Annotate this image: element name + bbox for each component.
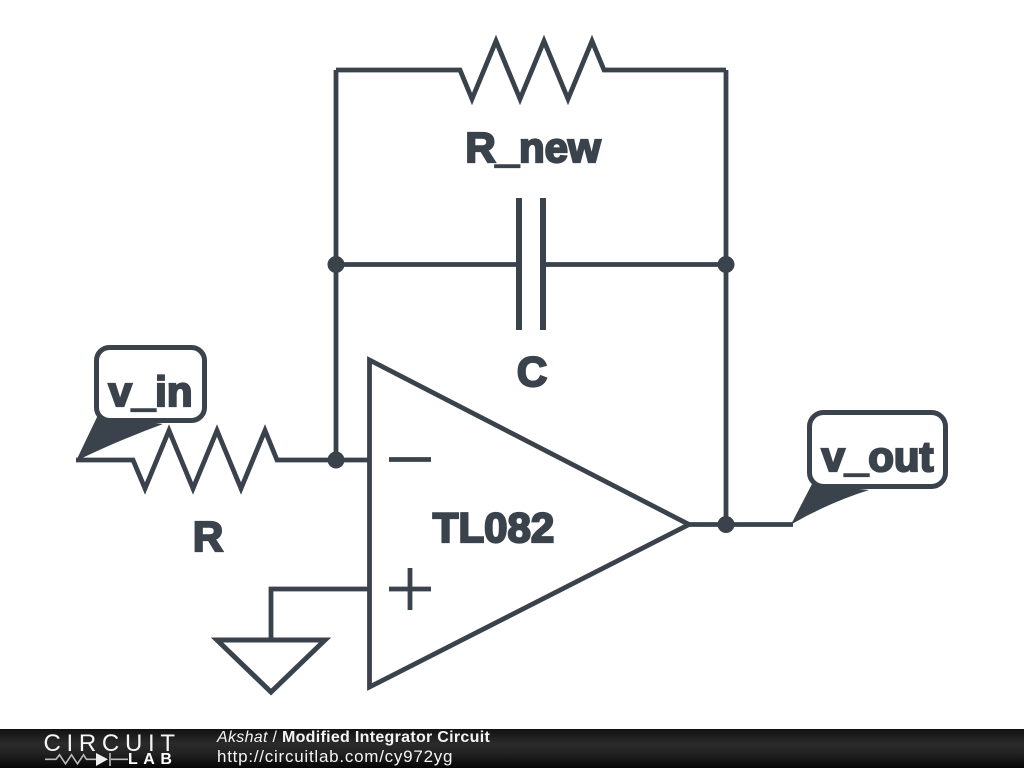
svg-text:TL082: TL082: [433, 504, 554, 551]
svg-text:v_in: v_in: [108, 368, 192, 415]
svg-text:R_new: R_new: [465, 124, 601, 171]
svg-text:C: C: [517, 348, 547, 395]
svg-text:v_out: v_out: [821, 433, 933, 480]
svg-text:R: R: [193, 513, 223, 560]
